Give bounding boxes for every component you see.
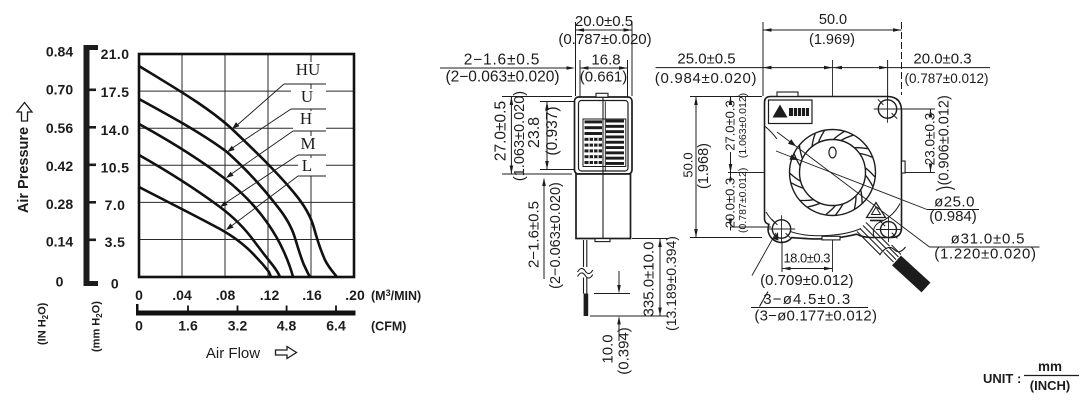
svg-text:335.0±10.0: 335.0±10.0	[641, 242, 658, 317]
svg-text:M: M	[300, 134, 315, 153]
svg-text:3.2: 3.2	[228, 318, 248, 334]
svg-text:21.0: 21.0	[101, 46, 130, 62]
svg-text:1.6: 1.6	[178, 318, 198, 334]
svg-text:(0.906±0.012): (0.906±0.012)	[937, 95, 953, 185]
svg-text:U: U	[301, 87, 313, 106]
svg-text:0.56: 0.56	[46, 120, 73, 136]
curve HU	[139, 66, 337, 277]
svg-text:14.0: 14.0	[101, 122, 130, 138]
inlet outer circle	[790, 130, 876, 216]
10.0 dim	[618, 271, 620, 291]
side view 2-1.6 leader	[440, 67, 570, 69]
svg-text:.16: .16	[302, 287, 322, 303]
CFM scale bar	[136, 311, 356, 316]
side view top tab	[596, 93, 608, 97]
svg-text:Air Flow: Air Flow	[206, 345, 260, 362]
side view 2-1.6 bottom leader	[543, 180, 545, 279]
side view lower body	[576, 174, 631, 239]
front top tab	[777, 92, 798, 96]
svg-text:(0.709±0.012): (0.709±0.012)	[760, 272, 853, 289]
curve H	[139, 124, 293, 277]
ext line wire tip	[590, 315, 668, 317]
svg-text:(0.984±0.020): (0.984±0.020)	[655, 70, 757, 87]
side view vent panel	[583, 119, 626, 167]
front view center lines	[832, 60, 834, 272]
curve L	[139, 187, 271, 277]
curve label M	[298, 136, 326, 155]
svg-text:23.0±0.3: 23.0±0.3	[922, 113, 937, 165]
svg-text:16.8: 16.8	[591, 52, 620, 69]
svg-text:(13.189±0.394): (13.189±0.394)	[663, 236, 679, 331]
curve label U	[291, 89, 326, 109]
svg-text:Air Pressure: Air Pressure	[16, 127, 32, 213]
svg-text:18.0±0.3: 18.0±0.3	[783, 251, 830, 266]
svg-text:HU: HU	[296, 60, 321, 79]
svg-text:20.0±0.5: 20.0±0.5	[575, 13, 633, 30]
svg-text:4.8: 4.8	[277, 318, 297, 334]
front view housing outline	[765, 97, 902, 243]
svg-text:(2−0.063±0.020): (2−0.063±0.020)	[445, 69, 559, 86]
phi25 leader	[776, 151, 927, 210]
side view inner frame	[579, 101, 629, 172]
svg-text:17.5: 17.5	[101, 84, 130, 100]
front right tab	[902, 161, 906, 173]
side view 20.0 dim line	[576, 29, 633, 31]
chart y-axis up arrow	[17, 103, 32, 122]
y axis bracket	[84, 45, 90, 286]
wire bundle	[857, 232, 881, 256]
mounting hole bottom-right	[881, 222, 897, 238]
curve label H	[293, 111, 326, 131]
svg-text:(1.968): (1.968)	[696, 143, 712, 189]
svg-text:(0.787±0.020): (0.787±0.020)	[558, 31, 651, 48]
svg-text:25.0±0.5: 25.0±0.5	[677, 51, 735, 68]
interior volute arcs	[766, 212, 861, 236]
svg-text:3.5: 3.5	[105, 234, 126, 250]
svg-text:27.0±0.3: 27.0±0.3	[722, 100, 737, 151]
curve U	[139, 99, 310, 277]
svg-text:0: 0	[135, 318, 143, 334]
svg-text:(CFM): (CFM)	[371, 320, 406, 334]
ext line insulation end	[594, 293, 630, 295]
side view body outer housing	[575, 97, 633, 174]
curve label HU	[284, 62, 326, 84]
air flow right arrow	[276, 347, 297, 359]
svg-text:0.84: 0.84	[46, 44, 73, 60]
svg-text:10.0: 10.0	[600, 334, 617, 363]
svg-text:H: H	[300, 109, 312, 128]
wire break symbol	[578, 268, 593, 273]
svg-text:50.0: 50.0	[819, 12, 847, 28]
svg-text:.04: .04	[172, 287, 192, 303]
side view wires	[583, 240, 585, 267]
335.0 dim	[659, 239, 661, 317]
svg-text:23.8: 23.8	[526, 117, 543, 148]
front bottom tab	[822, 236, 840, 240]
svg-text:(1.063±0.012): (1.063±0.012)	[737, 93, 749, 158]
svg-text:50.0: 50.0	[681, 152, 696, 177]
small arc above phi25	[936, 187, 955, 190]
svg-text:6.4: 6.4	[326, 318, 346, 334]
mounting hole bottom-left	[772, 220, 790, 238]
svg-text:0: 0	[135, 287, 143, 303]
svg-text:(mm H2O): (mm H2O)	[91, 301, 105, 352]
svg-text:27.0±0.5: 27.0±0.5	[493, 101, 510, 161]
phi31 leader	[777, 132, 930, 247]
curve label L	[298, 158, 326, 176]
svg-text:0.70: 0.70	[46, 82, 73, 98]
svg-text:10.5: 10.5	[101, 160, 130, 176]
svg-text:2−1.6±0.5: 2−1.6±0.5	[526, 201, 543, 268]
svg-text:0.28: 0.28	[46, 196, 73, 212]
svg-text:(0.787±0.012): (0.787±0.012)	[905, 71, 989, 86]
svg-text:2−1.6±0.5: 2−1.6±0.5	[464, 52, 540, 69]
svg-text:.20: .20	[345, 287, 365, 303]
svg-text:3−ø4.5±0.3: 3−ø4.5±0.3	[763, 291, 851, 308]
svg-text:(1.220±0.020): (1.220±0.020)	[934, 246, 1036, 263]
svg-text:(2−0.063±0.020): (2−0.063±0.020)	[548, 182, 564, 289]
svg-text:7.0: 7.0	[105, 197, 126, 213]
connector	[892, 256, 930, 293]
svg-text:(INCH): (INCH)	[1030, 378, 1070, 393]
svg-text:(IN H2O): (IN H2O)	[37, 302, 51, 345]
stripped wire end	[584, 294, 589, 317]
svg-text:.08: .08	[216, 287, 236, 303]
svg-text:L: L	[302, 156, 312, 175]
svg-text:0.42: 0.42	[46, 158, 73, 174]
inlet inner circle	[800, 140, 866, 206]
chart grid	[139, 54, 354, 277]
bundle break	[880, 247, 906, 255]
hub oval	[829, 147, 836, 158]
svg-text:20.0±0.3: 20.0±0.3	[913, 51, 971, 68]
curve M	[139, 155, 280, 277]
svg-text:(0.984): (0.984)	[929, 208, 977, 225]
svg-text:(0.787±0.012): (0.787±0.012)	[737, 168, 749, 233]
svg-text:(0.394): (0.394)	[616, 327, 633, 375]
chart frame	[139, 54, 354, 277]
svg-text:0: 0	[56, 274, 64, 290]
delta logo box	[769, 100, 813, 124]
svg-text:(1.969): (1.969)	[809, 32, 855, 48]
cert mark triangle	[867, 203, 886, 218]
svg-text:mm: mm	[1038, 359, 1062, 374]
svg-text:(0.661): (0.661)	[580, 69, 628, 86]
side view center seam	[602, 98, 604, 239]
svg-text:0: 0	[111, 276, 119, 292]
svg-text:0.14: 0.14	[46, 234, 73, 250]
svg-text:(M3/MIN): (M3/MIN)	[371, 288, 421, 303]
svg-text:.12: .12	[260, 287, 280, 303]
side view bottom tab	[595, 239, 610, 242]
svg-text:UNIT :: UNIT :	[983, 371, 1021, 386]
svg-text:(3−ø0.177±0.012): (3−ø0.177±0.012)	[754, 308, 877, 325]
mounting hole top-right	[878, 100, 896, 118]
svg-text:(0.937): (0.937)	[544, 106, 561, 155]
